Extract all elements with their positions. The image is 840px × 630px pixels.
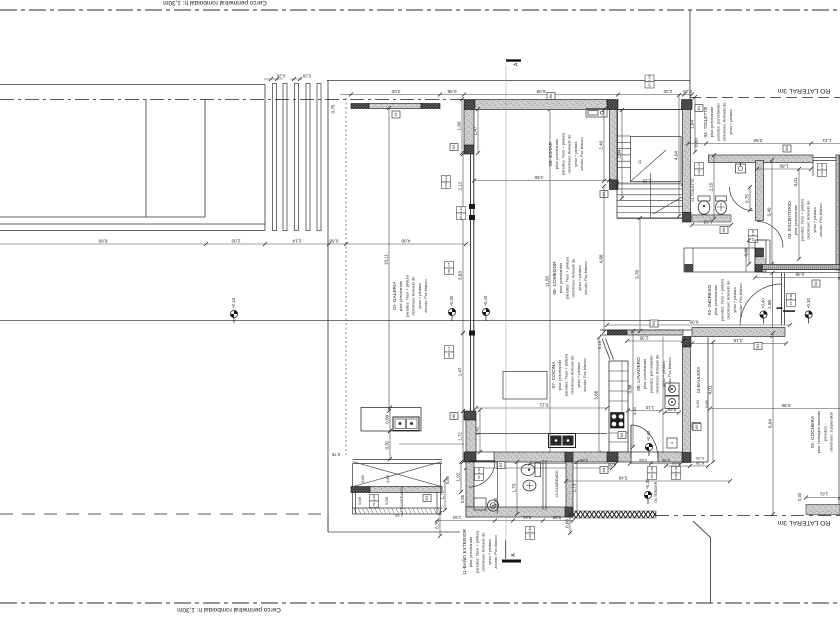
section marker A bottom (502, 540, 521, 563)
wall south a (494, 452, 565, 462)
svg-text:zócalo: Pvc blanco: zócalo: Pvc blanco (579, 137, 584, 171)
M5 kitchen (618, 432, 626, 439)
svg-text:0,92: 0,92 (385, 440, 390, 449)
svg-text:P6: P6 (372, 502, 376, 506)
svg-text:2.40: 2.40 (459, 207, 463, 213)
svg-text:M5: M5 (695, 425, 699, 430)
setback dotted line (345, 98, 347, 455)
dim 4,86 (464, 463, 616, 471)
label box (692, 423, 700, 430)
svg-text:M1: M1 (697, 106, 701, 111)
dim 2,35 (625, 336, 685, 344)
svg-text:0,16: 0,16 (597, 340, 602, 349)
svg-text:0,75: 0,75 (331, 452, 340, 457)
svg-text:11-BAÑO EXTERIOR: 11-BAÑO EXTERIOR (461, 528, 468, 575)
svg-text:cielorraso: Armado de: cielorraso: Armado de (722, 102, 727, 142)
label box pair (749, 230, 758, 243)
svg-text:M3: M3 (652, 321, 656, 326)
entry wall inner line b (762, 271, 840, 273)
svg-text:paredes: Yeso + pintura: paredes: Yeso + pintura (719, 278, 724, 321)
svg-text:P8: P8 (477, 475, 481, 479)
lot boundary bottom dash-dot (0, 602, 840, 604)
svg-text:3,45: 3,45 (795, 272, 804, 277)
pool basin right edge (204, 99, 206, 217)
dim 2,15 (709, 153, 716, 221)
svg-text:01- COCHERA: 01- COCHERA (810, 415, 816, 448)
dim 1,02 (456, 460, 463, 494)
dim 0,80 porch (744, 238, 751, 266)
stairwell top line (618, 109, 682, 111)
patio corner step (327, 514, 329, 532)
column C14 (466, 507, 474, 517)
guardado walls (351, 460, 442, 515)
svg-text:0,60: 0,60 (694, 138, 699, 147)
svg-text:5,11: 5,11 (539, 403, 548, 408)
column C9 (756, 248, 764, 257)
svg-text:2,00: 2,00 (231, 239, 240, 244)
wall east upper (683, 110, 691, 213)
svg-text:Cerco perimetral romboidal h:: Cerco perimetral romboidal h: 1,30m (177, 606, 281, 613)
column C7 (683, 337, 692, 347)
svg-text:piso: porcelanato: piso: porcelanato (642, 358, 647, 389)
column C5 kitchen NW (464, 411, 476, 420)
dim 1,73 b (572, 460, 579, 516)
room 05 ESTAR label (548, 132, 584, 175)
svg-text:+0,30: +0,30 (806, 298, 811, 309)
wall bano east (566, 462, 573, 507)
wall (370, 487, 442, 493)
svg-text:0,65: 0,65 (704, 399, 709, 408)
label box (812, 280, 820, 287)
svg-text:0,68: 0,68 (565, 519, 570, 528)
svg-text:2,20: 2,20 (663, 89, 672, 94)
svg-text:0,89: 0,89 (385, 474, 390, 483)
dim 4,01 (708, 340, 716, 464)
dim 3,45 (753, 272, 840, 280)
dim chain 8,00 2,00 2,14 0,60 4,00 (0, 239, 468, 246)
wall escritorio west (756, 161, 764, 221)
baulera east line (707, 338, 709, 463)
svg-text:1,84: 1,84 (690, 120, 695, 129)
dim 2,20 stair (615, 179, 685, 187)
room 07 COCINA label (551, 353, 587, 396)
label box pair (457, 207, 466, 220)
svg-text:0,75: 0,75 (745, 194, 750, 203)
svg-text:10- GALERIA: 10- GALERIA (392, 281, 398, 311)
level +0,40 lavadero (645, 430, 652, 456)
svg-text:zócalo: Pvc blanco: zócalo: Pvc blanco (583, 261, 588, 295)
svg-text:+0,30: +0,30 (449, 295, 454, 306)
svg-text:paredes: Yeso + pintura: paredes: Yeso + pintura (564, 256, 569, 299)
plank dim 0,20 (264, 74, 311, 82)
svg-text:2,35: 2,35 (394, 513, 403, 518)
dim 3,83 (458, 216, 465, 335)
porch top (757, 239, 770, 241)
M3 box (650, 320, 658, 327)
lavadero door opening (631, 451, 658, 453)
svg-text:paredes: Yeso + pintura: paredes: Yeso + pintura (563, 353, 568, 396)
hatched bar (421, 104, 440, 109)
wall top estar (475, 100, 607, 110)
window west outer line (470, 154, 472, 411)
svg-text:M1: M1 (452, 145, 456, 150)
column C15 (565, 507, 573, 517)
label box (392, 111, 400, 118)
svg-text:V02: V02 (528, 533, 532, 539)
svg-text:piso: porcelanato: piso: porcelanato (713, 284, 718, 315)
svg-text:Cerco perimetral romboidal h:: Cerco perimetral romboidal h: 1,30m (163, 0, 267, 6)
lavadero door (631, 425, 658, 459)
svg-text:M6: M6 (549, 94, 553, 99)
galeria edge line (399, 443, 464, 445)
pool basin bottom edge (0, 216, 205, 218)
bano wc (521, 463, 540, 477)
lavadero angled wall (602, 339, 614, 360)
level +0,40 estar (482, 295, 489, 321)
label box pair (526, 527, 535, 540)
svg-text:2,35: 2,35 (639, 336, 648, 341)
svg-text:3,86: 3,86 (594, 390, 599, 399)
toilette bidet (716, 196, 727, 214)
svg-text:5,08: 5,08 (536, 89, 545, 94)
label box pair (695, 163, 704, 176)
entry north wall hatched band (762, 265, 840, 270)
svg-text:paredes: Yeso + pintura: paredes: Yeso + pintura (799, 198, 804, 241)
svg-text:03. ESCRITORIO: 03. ESCRITORIO (787, 201, 793, 239)
svg-text:04- TOILETTE: 04- TOILETTE (703, 106, 709, 137)
svg-text:piso: porcelanato: piso: porcelanato (793, 204, 798, 235)
svg-text:3,83: 3,83 (458, 271, 463, 280)
rear patio line (0, 320, 690, 322)
P1 door label (787, 294, 796, 307)
svg-text:M5: M5 (620, 433, 624, 438)
V07 label (645, 75, 654, 88)
svg-text:piso: porcelanato: piso: porcelanato (709, 106, 714, 137)
column C12 (565, 452, 573, 462)
staircase (617, 110, 684, 219)
svg-text:M2: M2 (814, 281, 818, 286)
svg-text:paredes: Yeso + pintura: paredes: Yeso + pintura (560, 132, 565, 175)
door head line (476, 451, 494, 453)
dim 1,72 b (440, 478, 447, 512)
label box (695, 105, 703, 112)
svg-text:RO LATERAL 3m: RO LATERAL 3m (777, 87, 830, 94)
svg-text:1,73: 1,73 (512, 483, 517, 492)
svg-text:V05: V05 (674, 473, 678, 479)
dim 10,11 galeria (384, 106, 391, 413)
toilette wc (698, 196, 710, 214)
dim 0,75 b (435, 511, 442, 538)
column C1 top-left (464, 100, 475, 110)
dim 2,12 (458, 152, 465, 220)
svg-text:4,88: 4,88 (599, 254, 604, 263)
room 06 COMEDOR label (552, 256, 588, 299)
svg-text:V07: V07 (648, 82, 652, 88)
label box pair (818, 164, 827, 177)
svg-text:2,94: 2,94 (617, 149, 622, 158)
dim 11,50 interior (545, 107, 552, 456)
patio bottom edge (328, 531, 460, 533)
svg-text:M4: M4 (602, 468, 606, 473)
washer dryer (665, 383, 679, 409)
dim 4,88 (599, 184, 606, 334)
pool divider (145, 99, 147, 217)
svg-text:1,47: 1,47 (473, 126, 478, 135)
wall stair west (610, 110, 618, 181)
wall kitchen left (466, 420, 476, 452)
svg-text:0,68: 0,68 (384, 496, 389, 505)
column C2b stair-left-bottom (610, 180, 619, 190)
bano shower (487, 500, 498, 511)
svg-text:yeso + pintura: yeso + pintura (573, 141, 578, 167)
svg-text:piso: porcelanato: piso: porcelanato (554, 138, 559, 169)
deck boundary vertical (327, 81, 329, 533)
column C8 SE (683, 453, 692, 463)
wall south b (573, 452, 608, 462)
svg-text:yeso + pintura: yeso + pintura (812, 207, 817, 233)
svg-text:3,00: 3,00 (391, 89, 400, 94)
svg-text:4,86: 4,86 (607, 463, 616, 468)
svg-text:0,30: 0,30 (695, 456, 704, 461)
east edge line (838, 155, 840, 505)
lot boundary top dash-dot (0, 9, 840, 11)
label box (754, 343, 762, 350)
hatched bar (351, 104, 369, 109)
svg-text:0,60: 0,60 (638, 458, 647, 463)
svg-text:0,61: 0,61 (522, 515, 531, 520)
svg-text:3,78: 3,78 (635, 270, 640, 279)
svg-text:zócalo: Pvc blanco: zócalo: Pvc blanco (582, 358, 587, 392)
svg-text:1,02: 1,02 (456, 472, 461, 481)
room 08 LAVADERO label (636, 354, 672, 394)
label box pair (475, 468, 484, 481)
svg-text:M4: M4 (785, 146, 789, 151)
heater box (667, 438, 677, 448)
svg-text:6,00: 6,00 (689, 320, 698, 325)
galeria beam (351, 104, 440, 109)
svg-text:piso: porcelanato: piso: porcelanato (558, 262, 563, 293)
patio cross brace (353, 462, 442, 487)
svg-text:yeso + pintura: yeso + pintura (487, 539, 492, 565)
dim 4,04 stair (674, 93, 681, 218)
window mullion (469, 331, 475, 336)
label box pair (445, 346, 454, 359)
kitchen tall cabinets (609, 361, 628, 452)
window mullion (469, 204, 475, 209)
island counter (361, 408, 421, 432)
svg-text:yeso + pintura: yeso + pintura (728, 109, 733, 135)
guardado hatch ticks (354, 509, 441, 514)
dim 5,11 (474, 403, 609, 411)
wall (369, 104, 421, 109)
svg-text:3,50: 3,50 (753, 138, 762, 143)
section marker A top (506, 59, 521, 66)
svg-text:0,99: 0,99 (552, 515, 561, 520)
svg-text:07- COCINA: 07- COCINA (551, 361, 557, 389)
shower partition (497, 462, 499, 514)
label box (693, 424, 701, 431)
svg-text:M5: M5 (452, 414, 456, 419)
label box (600, 467, 608, 474)
M5 island (450, 413, 458, 420)
dim chain 1,94 0,61 0,99 (435, 515, 575, 523)
svg-text:2,14: 2,14 (292, 239, 301, 244)
svg-text:P1: P1 (751, 237, 755, 241)
svg-text:2,20: 2,20 (642, 179, 651, 184)
svg-text:8,00: 8,00 (98, 239, 107, 244)
wall baulera north (600, 330, 692, 335)
room 11 BANO EXTERIOR label (461, 528, 498, 575)
toilette vanity (736, 162, 746, 173)
right lot line vertical (689, 10, 691, 100)
svg-text:0,89: 0,89 (360, 474, 365, 483)
wall (627, 330, 683, 335)
label box (497, 462, 505, 469)
label box pair (445, 262, 454, 275)
deck plank 2 (283, 84, 287, 231)
svg-text:13-BAULERA: 13-BAULERA (696, 367, 701, 394)
label box pair (442, 176, 451, 189)
svg-text:1,21: 1,21 (822, 138, 831, 143)
kitchen sink (549, 434, 576, 448)
svg-text:piso: porcelanato: piso: porcelanato (468, 536, 473, 567)
label box (547, 93, 555, 100)
svg-text:+0,40: +0,40 (646, 430, 651, 441)
svg-text:V05: V05 (447, 268, 451, 274)
dim 0,30 1,61 (797, 492, 840, 502)
ingreso door arc (740, 284, 782, 326)
svg-text:P5: P5 (650, 474, 654, 478)
svg-text:cielorraso: Armado de: cielorraso: Armado de (567, 134, 572, 174)
wall bano south (466, 507, 573, 517)
dim 1,42 (475, 408, 482, 454)
svg-text:paredes: -: paredes: - (822, 422, 827, 441)
comedor table (503, 372, 547, 400)
pool deck right edge (264, 85, 266, 231)
svg-text:yeso + pintura: yeso + pintura (576, 362, 581, 388)
dim 3,86 b (628, 329, 635, 449)
svg-text:0,20: 0,20 (302, 74, 311, 79)
level +0,15 patio (230, 297, 237, 323)
hatched bar (351, 487, 370, 493)
window west inner line (473, 154, 475, 411)
svg-text:3,86: 3,86 (628, 384, 633, 393)
svg-text:0,85: 0,85 (447, 89, 456, 94)
svg-text:yeso + pintura: yeso + pintura (732, 287, 737, 313)
svg-text:0,68: 0,68 (357, 496, 362, 505)
svg-text:cielorraso: Armado de: cielorraso: Armado de (726, 280, 731, 320)
svg-text:1,42: 1,42 (475, 426, 480, 435)
svg-text:1,61: 1,61 (819, 492, 828, 497)
svg-text:cielorraso: suspendido: cielorraso: suspendido (829, 411, 834, 452)
svg-text:0,60: 0,60 (667, 407, 676, 412)
ingreso door leaf (782, 273, 785, 325)
svg-text:02- INGRESO: 02- INGRESO (707, 285, 713, 316)
svg-text:1.10: 1.10 (697, 163, 701, 169)
svg-text:2,40: 2,40 (599, 140, 604, 149)
svg-text:2,12: 2,12 (458, 181, 463, 190)
svg-text:1,73: 1,73 (572, 483, 577, 492)
svg-text:4,01: 4,01 (708, 385, 713, 394)
section line A-A (505, 65, 507, 558)
svg-text:P1: P1 (789, 301, 793, 305)
entry wall inner line a (762, 269, 840, 271)
label box pair (648, 467, 657, 480)
svg-text:yeso + pintura: yeso + pintura (661, 361, 666, 387)
svg-text:piso: porcelanato: piso: porcelanato (398, 280, 403, 311)
svg-text:paredes: Yeso + pintura: paredes: Yeso + pintura (474, 530, 479, 573)
dim 6,04 (768, 331, 775, 516)
svg-text:2,86: 2,86 (579, 458, 588, 463)
level +0,40 ingreso (760, 298, 767, 324)
door threshold marks (777, 307, 796, 312)
driveway edge vertical (710, 537, 712, 603)
svg-text:04-TOILETTE: 04-TOILETTE (691, 178, 695, 202)
svg-text:2,15: 2,15 (709, 182, 714, 191)
dim 6,00 (605, 320, 792, 328)
wall escritorio east sliver (836, 155, 840, 270)
M1 box left wall (450, 144, 458, 151)
svg-text:zócalo: Pvc blanco: zócalo: Pvc blanco (423, 279, 428, 313)
svg-text:0,60: 0,60 (695, 399, 700, 408)
window mullion (469, 215, 475, 220)
svg-text:09-TENDER: 09-TENDER (654, 481, 658, 502)
dim 0,92 (385, 429, 392, 461)
svg-text:2,47: 2,47 (458, 367, 463, 376)
lavadero partition line (662, 337, 664, 453)
deck plank 4 (306, 84, 310, 231)
window V01 line a (813, 157, 840, 159)
svg-text:0,30: 0,30 (797, 492, 802, 501)
room 03 ESCRITORIO label (787, 198, 823, 241)
dim 4,50 (472, 175, 611, 183)
dim 1,72 (458, 409, 465, 464)
deck plank 1 (273, 84, 277, 231)
svg-text:0,90: 0,90 (661, 458, 670, 463)
svg-text:1,80: 1,80 (779, 164, 788, 169)
svg-text:4,50: 4,50 (534, 175, 543, 180)
column C6 (683, 213, 692, 223)
closet right cabinet (755, 240, 766, 272)
toilette counter (692, 215, 731, 222)
dim 5,46 (564, 476, 732, 484)
svg-text:piso: porcelanato: piso: porcelanato (557, 359, 562, 390)
svg-text:2.20: 2.20 (648, 75, 652, 81)
porch edge (769, 240, 771, 264)
dim 1,98 (767, 271, 774, 338)
svg-text:12-GUARDADO: 12-GUARDADO (400, 487, 404, 514)
svg-text:M3: M3 (756, 344, 760, 349)
bano closet divider b (545, 460, 547, 510)
wall south c (618, 452, 631, 462)
svg-text:2.4: 2.4 (447, 346, 451, 351)
svg-text:3.8: 3.8 (447, 262, 451, 267)
right boundary dash-dot bottom (656, 515, 840, 517)
svg-text:1.50: 1.50 (650, 467, 654, 473)
svg-text:RO LATERAL 3m: RO LATERAL 3m (777, 519, 830, 526)
escritorio door (757, 222, 783, 248)
wall south d (658, 452, 682, 462)
dim 1,84 (690, 95, 697, 154)
svg-text:0.90: 0.90 (751, 230, 755, 236)
svg-text:4,00: 4,00 (401, 239, 410, 244)
baulera bottom line (691, 461, 708, 463)
svg-text:10,11: 10,11 (384, 253, 389, 265)
wall east lower (683, 347, 691, 453)
svg-text:+0,40: +0,40 (483, 295, 488, 306)
svg-text:1,94: 1,94 (452, 515, 461, 520)
svg-text:0,80: 0,80 (385, 414, 390, 423)
